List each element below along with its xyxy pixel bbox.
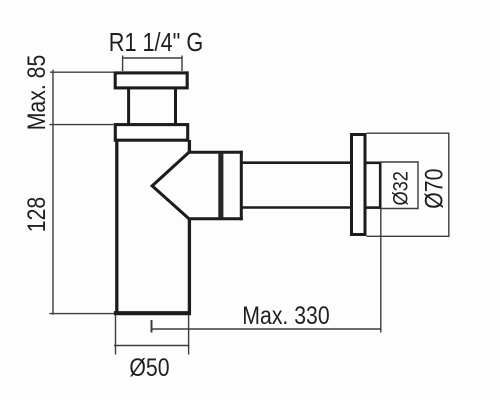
label Ø70 [420,169,448,209]
label R1 1/4" G [109,29,203,57]
label Max. 330 [242,301,329,329]
dim line Max. 330 [152,320,381,333]
label Max. 85 [22,55,50,131]
svg-text:Ø50: Ø50 [129,353,169,381]
wall flange [352,135,366,235]
dim line Max. 85 / 128 [52,70,54,315]
extension below wall stub [380,209,382,333]
trap body right edge upper [188,140,191,153]
label 128 [22,197,50,232]
svg-text:Ø70: Ø70 [420,169,448,209]
svg-text:Ø32: Ø32 [389,171,413,206]
thread dimension bracket [122,56,183,72]
label Ø50 [129,353,169,381]
dim Max. 85 extension top [50,71,115,73]
sleeve seal ring (hatched) [218,153,223,219]
outlet sleeve [188,151,243,220]
svg-text:128: 128 [22,197,50,232]
dim Ø70 [367,133,450,238]
threaded neck [129,88,176,125]
label Ø32 [389,171,413,206]
dim extension at flange top [50,124,114,126]
horizontal pipe [241,163,351,208]
outlet chevron [152,152,189,219]
top flange [115,73,187,88]
dim Ø32 [381,161,418,209]
wall stub [365,162,380,209]
trap body right edge lower [188,218,191,314]
svg-text:Max. 330: Max. 330 [242,301,329,329]
svg-text:Max. 85: Max. 85 [22,55,50,131]
trap body left edge [115,141,118,314]
trap body bottom [114,311,191,315]
lower flange nut [115,125,187,141]
dim Ø50 extensions [114,315,189,355]
svg-text:R1 1/4" G: R1 1/4" G [109,29,203,57]
dim extension at body bottom [50,313,115,315]
